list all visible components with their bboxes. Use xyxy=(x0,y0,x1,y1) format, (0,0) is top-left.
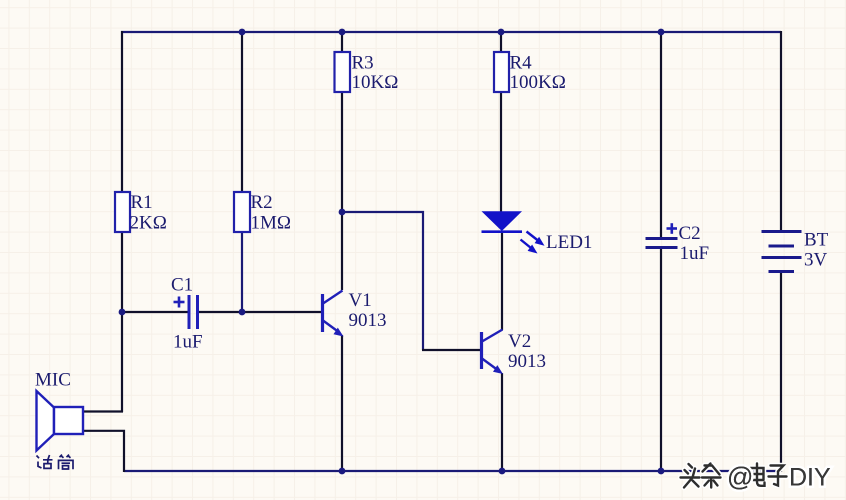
label 话筒 (huàtǒng) drawn glyphs xyxy=(37,455,74,470)
node: R4 top junction xyxy=(498,29,505,36)
LED1 emission arrow upper xyxy=(527,232,545,246)
svg-text:C2: C2 xyxy=(679,223,701,244)
wire: V1 collector node to V2 base (L path) xyxy=(343,212,423,350)
svg-text:10KΩ: 10KΩ xyxy=(352,72,399,93)
node: V1 emitter ground junction xyxy=(339,468,346,475)
wire: V1 emitter column to ground xyxy=(341,335,343,472)
svg-text:DIY: DIY xyxy=(789,464,831,492)
transistor V1 (NPN 9013) xyxy=(323,291,344,337)
wire: V2 emitter column to ground xyxy=(501,373,503,472)
node: R1/C1 junction xyxy=(119,309,126,316)
svg-text:3V: 3V xyxy=(804,250,828,271)
wire: V2 base lead xyxy=(422,349,480,351)
wire: R2 column lower to C1 node xyxy=(241,232,243,312)
transistor V2 (NPN 9013) xyxy=(482,330,504,375)
node: R3 top junction xyxy=(339,29,346,36)
wire: C1 left lead xyxy=(121,311,188,313)
svg-text:1uF: 1uF xyxy=(173,332,203,353)
wire: C2 column lower xyxy=(660,249,662,472)
svg-text:MIC: MIC xyxy=(35,370,71,391)
svg-text:1uF: 1uF xyxy=(680,243,710,264)
wire: LED cathode to V2 collector xyxy=(501,232,503,330)
svg-text:R3: R3 xyxy=(352,53,374,74)
diode LED1 xyxy=(482,211,523,231)
svg-text:R2: R2 xyxy=(251,192,273,213)
wire: R4 / LED column xyxy=(500,31,502,212)
wire: MIC bottom lead xyxy=(83,431,124,472)
wire: bottom ground rail xyxy=(124,470,781,472)
watermark 头条@电子DIY xyxy=(681,462,832,492)
svg-text:2KΩ: 2KΩ xyxy=(130,213,167,234)
microphone MIC symbol xyxy=(37,391,84,451)
node: C2 ground junction xyxy=(658,468,665,475)
capacitor C1 xyxy=(189,295,198,329)
resistor R2 xyxy=(234,192,250,232)
svg-text:V1: V1 xyxy=(349,290,372,311)
wire: top power rail xyxy=(121,31,781,33)
node: C2 top junction xyxy=(658,29,665,36)
LED1 emission arrow lower xyxy=(521,240,538,254)
svg-text:V2: V2 xyxy=(508,331,531,352)
C2 plus sign xyxy=(667,223,678,234)
C1 plus sign xyxy=(174,297,185,308)
wire: MIC top lead xyxy=(83,410,123,412)
wire: R2 column upper xyxy=(241,31,243,232)
svg-text:100KΩ: 100KΩ xyxy=(510,72,566,93)
resistor R1 xyxy=(115,192,130,232)
node: V2 emitter ground junction xyxy=(499,468,506,475)
battery BT xyxy=(762,232,802,272)
svg-text:C1: C1 xyxy=(171,275,193,296)
node: R2 top junction xyxy=(239,29,246,36)
svg-text:LED1: LED1 xyxy=(546,232,592,253)
svg-text:R1: R1 xyxy=(131,192,153,213)
wire: left column through R1 xyxy=(121,31,123,412)
svg-text:9013: 9013 xyxy=(349,310,387,331)
resistor R4 xyxy=(494,52,509,92)
wire: BT column lower xyxy=(780,272,782,472)
svg-text:@: @ xyxy=(727,462,753,492)
svg-text:1MΩ: 1MΩ xyxy=(251,213,292,234)
node: R2/C1 output junction xyxy=(239,309,246,316)
resistor R3 xyxy=(335,52,351,92)
svg-text:R4: R4 xyxy=(510,53,533,74)
wire: R3 / V1 collector column xyxy=(341,31,343,290)
capacitor C2 xyxy=(646,239,678,248)
node: R3/V1 collector branch junction xyxy=(339,209,346,216)
wire: BT column upper xyxy=(780,31,782,232)
svg-text:BT: BT xyxy=(804,230,829,251)
svg-text:9013: 9013 xyxy=(508,351,546,372)
wire: C1 right lead to V1 base xyxy=(198,311,321,313)
wire: C2 column upper xyxy=(660,31,662,238)
